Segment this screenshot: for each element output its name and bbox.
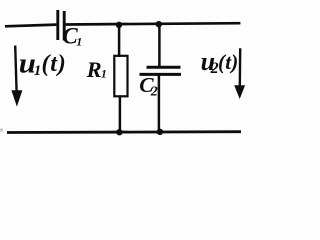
node junction bottom of R1 (116, 129, 122, 135)
node junction top of R1 (116, 22, 122, 28)
svg-text:R: R (86, 57, 102, 82)
svg-text:1: 1 (101, 67, 107, 81)
capacitor C1 left plate (56, 10, 59, 40)
node junction bottom of C2 (157, 129, 163, 135)
voltage arrow u2 head (234, 85, 245, 99)
svg-text:1: 1 (34, 63, 42, 79)
capacitor C2 top plate (147, 66, 181, 69)
node junction top of C2 (156, 21, 162, 27)
svg-text:(t): (t) (218, 50, 238, 74)
voltage arrow u1 head (11, 90, 22, 106)
capacitor C2 value label (139, 73, 158, 99)
wire top-left segment (5, 25, 56, 27)
voltage label u1(t) (19, 47, 67, 79)
wire bottom (7, 130, 241, 134)
wire from C2 to bottom node (158, 76, 161, 132)
capacitor C2 bottom plate (140, 73, 182, 76)
resistor R1 (114, 56, 127, 97)
voltage label u2(t) (201, 47, 239, 77)
svg-text:2: 2 (150, 84, 158, 99)
wire from top node to R1 (118, 25, 121, 57)
wire from R1 to bottom node (119, 95, 122, 132)
svg-text:1: 1 (76, 35, 82, 49)
capacitor C1 value label (62, 23, 82, 48)
wire from top node to C2 (158, 24, 161, 66)
scan artifact bottom-left (0, 129, 3, 132)
resistor R1 label (86, 57, 107, 82)
capacitor C1 right plate (63, 11, 66, 41)
voltage arrow u1 shaft (15, 46, 16, 93)
wire top-right segment (66, 23, 241, 24)
voltage arrow u2 shaft (239, 48, 242, 87)
svg-text:(t): (t) (42, 51, 67, 77)
